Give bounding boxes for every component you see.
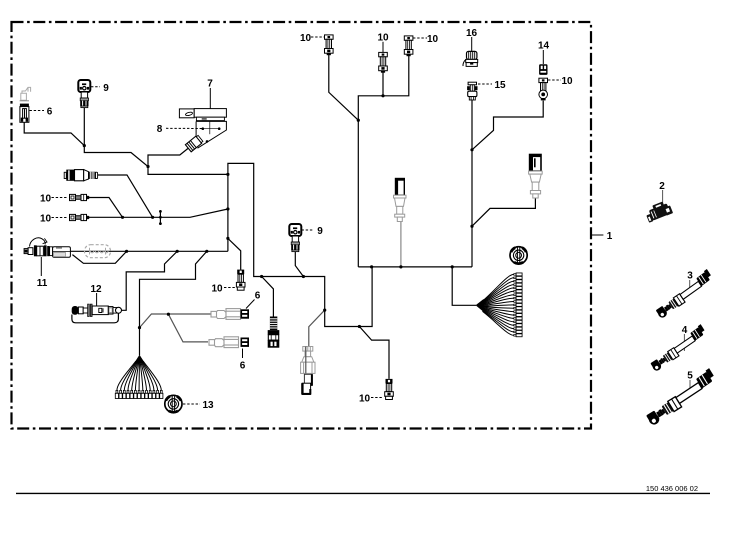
svg-text:14: 14	[538, 41, 550, 52]
svg-text:1: 1	[607, 231, 613, 242]
item 2 connector	[644, 199, 673, 222]
item 8 mount plate	[196, 121, 226, 148]
right fan triangle	[476, 299, 484, 312]
left fan trunk triangle	[134, 355, 145, 363]
label 12	[96, 293, 98, 306]
item 15 sensor	[467, 82, 477, 100]
branch bus to item 12 circle	[121, 251, 177, 310]
left fan wires	[117, 361, 161, 390]
svg-text:2: 2	[659, 181, 665, 192]
angled ribbed connector of item 8	[185, 135, 203, 152]
connector 10c (inverted)	[236, 270, 245, 291]
label 6 upper	[246, 300, 255, 309]
svg-text:6: 6	[240, 361, 246, 372]
item 13 round socket face	[165, 395, 182, 412]
label 10ta	[311, 36, 324, 38]
wire big round connector to bus J4	[98, 175, 153, 217]
grease icon above connector 6a	[20, 87, 31, 100]
grey connector x401 with black hook cap	[394, 179, 407, 222]
bus y251 item11 to ladder	[69, 250, 228, 252]
svg-text:3: 3	[687, 271, 693, 282]
svg-text:9: 9	[317, 226, 323, 237]
left fan terminals	[115, 390, 163, 398]
label 10c	[224, 287, 236, 289]
item 7 bracket box	[179, 109, 226, 121]
label 3	[689, 280, 691, 294]
label 9a	[91, 86, 100, 88]
round socket face near right fan	[510, 247, 527, 264]
label 4	[683, 334, 685, 351]
wire branch J2 to angled connector of item 8	[148, 146, 191, 167]
wire connector 10ta diagonal to rail	[329, 54, 359, 120]
wire connector 10 row1 to bus	[89, 198, 123, 218]
bottom rule line	[16, 492, 710, 494]
optional connector dashed outline	[85, 245, 111, 258]
svg-text:10: 10	[40, 214, 52, 225]
label 15	[478, 83, 492, 85]
svg-text:6: 6	[255, 291, 261, 302]
connector 6a	[20, 104, 29, 123]
wire item 14 connector to 15-wire	[472, 101, 543, 150]
label 10 row1	[52, 197, 69, 199]
svg-text:10: 10	[359, 394, 371, 405]
junction dots	[83, 94, 474, 329]
svg-text:16: 16	[466, 28, 478, 39]
connector 10ta	[325, 35, 334, 55]
svg-text:11: 11	[37, 278, 48, 289]
wire connector9a down through J1 to ladder left rail	[84, 108, 228, 175]
svg-text:10: 10	[300, 33, 312, 44]
tall connector with black cap	[529, 155, 543, 199]
wire connector9b to bus	[295, 251, 303, 276]
connector 9b	[289, 224, 301, 252]
item 11 connector assembly	[24, 238, 70, 257]
harness ladder loop	[228, 163, 372, 326]
connector 10tb	[379, 52, 388, 72]
item 16 cap	[463, 51, 478, 66]
wire grey connector x401	[400, 222, 402, 267]
svg-text:150 436 006 02: 150 436 006 02	[646, 484, 698, 493]
label 6a	[30, 110, 45, 112]
label 2	[662, 190, 664, 204]
svg-text:12: 12	[90, 284, 102, 295]
label 1	[591, 234, 603, 236]
wire bus y217 from connector 10 row2 to ladder rail	[89, 209, 228, 217]
branch bus to left fan trunk	[140, 251, 207, 355]
label 13	[183, 403, 200, 405]
right fan wires	[483, 274, 514, 335]
svg-text:10: 10	[561, 76, 573, 87]
label 10 row2	[52, 217, 69, 219]
wire lower connector6 to junction	[168, 314, 208, 342]
svg-text:5: 5	[687, 371, 693, 382]
wire bus to connector 10e	[359, 327, 389, 379]
splice symbol on bus	[159, 211, 161, 223]
connector 10tc	[404, 36, 413, 56]
wire right fan trunk	[452, 267, 476, 305]
item 4 cable assembly	[647, 324, 710, 372]
svg-text:6: 6	[47, 107, 53, 118]
label 14	[542, 50, 544, 64]
big round connector M12	[64, 170, 97, 181]
upper connector 6 pair	[211, 309, 249, 320]
threaded sensor connector x273	[268, 317, 280, 348]
svg-text:13: 13	[202, 400, 214, 411]
item 5 cable assembly	[642, 368, 720, 426]
svg-text:10: 10	[377, 33, 389, 44]
connector 9a	[78, 80, 90, 108]
grey connector x308 with open housing	[301, 347, 315, 395]
big loop bottom bus	[358, 266, 472, 268]
wire upper connector6 to trunk	[140, 314, 211, 328]
label 10tb	[382, 42, 384, 53]
item 12 inline fuse holder	[72, 304, 122, 316]
wire connector 10tb to top bus	[382, 72, 384, 96]
label 6 lower	[242, 349, 244, 359]
svg-text:4: 4	[682, 325, 688, 336]
label 11	[40, 257, 42, 276]
svg-text:10: 10	[427, 34, 439, 45]
item 12 cable loop	[72, 313, 119, 323]
svg-text:8: 8	[157, 124, 163, 135]
label 10d	[548, 79, 561, 81]
cable detour loop at item 11	[72, 251, 126, 263]
wire bus to threaded sensor	[262, 277, 274, 317]
svg-text:7: 7	[207, 79, 213, 90]
label 5	[689, 380, 691, 396]
svg-text:10: 10	[211, 284, 223, 295]
harness boundary dashed frame	[12, 22, 592, 429]
item 14 plug	[539, 64, 547, 75]
label 9b	[302, 229, 314, 231]
item 3 cable assembly	[652, 269, 716, 319]
right fan terminals	[514, 273, 522, 337]
label 8	[166, 127, 202, 129]
big loop left rail and top bus to connector 10tc	[358, 54, 409, 267]
wire tall connector to 15-wire	[472, 198, 535, 226]
wire item 15 vertical	[471, 100, 473, 267]
connector 10 row1	[70, 194, 90, 200]
svg-text:15: 15	[494, 80, 506, 91]
svg-text:9: 9	[103, 83, 109, 94]
wire rail J7 to connector 10c	[228, 238, 241, 269]
label 7	[209, 88, 211, 109]
label 10e	[371, 397, 382, 399]
label 10tc	[413, 37, 427, 39]
wire bus to grey connector lower	[309, 310, 325, 346]
lower connector 6 pair	[209, 337, 249, 348]
wire connector6a to node J1	[24, 122, 84, 145]
connector 10e (inverted)	[385, 379, 394, 400]
connector 10 row2	[70, 214, 90, 220]
svg-text:10: 10	[40, 194, 52, 205]
connector 10d below item 14	[539, 78, 548, 100]
label 16	[471, 37, 473, 51]
